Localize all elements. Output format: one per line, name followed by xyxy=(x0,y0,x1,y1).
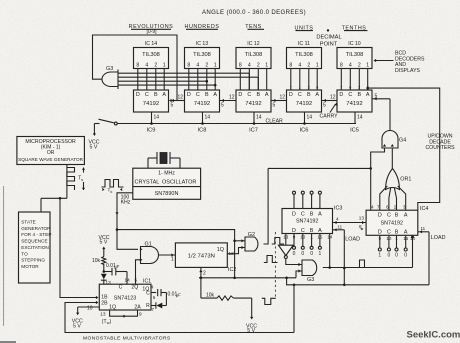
svg-text:12: 12 xyxy=(229,94,235,100)
wire lower distribution bus xyxy=(285,277,429,287)
switch input terminals IC3 xyxy=(293,191,322,208)
carry wire between counters 3 xyxy=(271,94,287,108)
svg-text:TIL308: TIL308 xyxy=(193,52,211,58)
svg-text:C: C xyxy=(348,92,352,98)
svg-text:74192: 74192 xyxy=(296,101,312,107)
svg-text:B: B xyxy=(357,92,361,98)
wire 1Q to G2 bottom input xyxy=(227,246,245,254)
svg-text:74192: 74192 xyxy=(245,101,261,107)
svg-text:ANGLE (000.0 - 360.0 DEGREES): ANGLE (000.0 - 360.0 DEGREES) xyxy=(202,9,306,16)
svg-text:1: 1 xyxy=(265,63,268,69)
svg-text:B: B xyxy=(154,92,158,98)
svg-text:μF: μF xyxy=(176,292,181,297)
svg-text:5: 5 xyxy=(135,278,138,283)
pin numbers IC6 counter inputs xyxy=(290,85,319,90)
svg-text:8: 8 xyxy=(289,63,292,69)
svg-text:1- MHz: 1- MHz xyxy=(158,171,175,177)
svg-text:IC3: IC3 xyxy=(334,206,342,212)
svg-text:A: A xyxy=(366,92,370,98)
svg-text:C: C xyxy=(146,291,150,297)
svg-text:G4: G4 xyxy=(399,138,406,144)
svg-text:B: B xyxy=(395,230,399,236)
svg-text:IC6: IC6 xyxy=(300,128,309,134)
wire OR1 output to G4 input xyxy=(391,148,393,169)
svg-text:B: B xyxy=(256,92,260,98)
svg-text:74192: 74192 xyxy=(346,101,362,107)
svg-text:G3: G3 xyxy=(307,277,314,283)
carry wire between counters 2 xyxy=(220,94,237,108)
display UIC10 TIL308 (TENTHS) xyxy=(337,41,372,69)
negative pulse symbol xyxy=(262,298,276,304)
svg-text:5: 5 xyxy=(171,103,174,109)
svg-text:8: 8 xyxy=(239,63,242,69)
svg-text:C: C xyxy=(298,92,302,98)
svg-text:IC5: IC5 xyxy=(350,128,359,134)
wire left rail to 74123 1B xyxy=(60,198,99,299)
VCC 5V at pin 10 xyxy=(72,306,100,330)
svg-text:14: 14 xyxy=(125,278,131,283)
svg-text:D: D xyxy=(292,228,296,234)
svg-text:s: s xyxy=(81,178,83,182)
heading labels for digit columns xyxy=(129,24,368,35)
carry wire between counters 4 xyxy=(322,94,338,108)
svg-text:OR: OR xyxy=(47,150,55,156)
capacitor 0.01uF right xyxy=(151,289,181,300)
svg-text:4: 4 xyxy=(298,63,301,69)
svg-text:KHz: KHz xyxy=(121,200,131,206)
svg-text:A: A xyxy=(265,92,269,98)
diode CR2 xyxy=(151,302,166,312)
svg-text:8: 8 xyxy=(136,63,139,69)
svg-text:A: A xyxy=(404,230,408,236)
BCD bus line D xyxy=(118,72,249,74)
wires TIL308 pins to counter (TENTHS) xyxy=(341,69,367,91)
wire pin 14 stub xyxy=(125,272,131,285)
svg-text:14: 14 xyxy=(256,115,262,121)
display UIC14 TIL308 (REVOLUTIONS) xyxy=(134,41,169,69)
wire load bus horizontal xyxy=(268,167,372,170)
svg-text:A: A xyxy=(315,92,319,98)
wire IC3 pin 14 down xyxy=(329,234,331,268)
svg-text:STEPPING: STEPPING xyxy=(21,258,45,263)
wire load line left with label xyxy=(343,230,360,286)
label CARRY with arrow xyxy=(320,103,339,120)
label IC6 xyxy=(300,128,309,134)
svg-text:STATE: STATE xyxy=(21,220,35,225)
svg-text:4: 4 xyxy=(196,63,199,69)
note BCD DECODERS AND DISPLAYS with arrow xyxy=(374,51,425,74)
pulse symbol on load wire xyxy=(357,260,370,268)
svg-text:4: 4 xyxy=(349,63,352,69)
svg-text:1Q: 1Q xyxy=(217,247,224,253)
pin-14 clear stub IC7 xyxy=(254,112,262,124)
svg-text:SN74123: SN74123 xyxy=(114,296,136,302)
svg-text:CRYSTAL: CRYSTAL xyxy=(135,180,160,186)
svg-text:1Q: 1Q xyxy=(109,305,116,311)
svg-text:DISPLAYS: DISPLAYS xyxy=(395,68,421,74)
svg-text:11: 11 xyxy=(338,225,343,230)
svg-text:2: 2 xyxy=(203,271,206,277)
svg-text:IC 10: IC 10 xyxy=(348,41,361,47)
svg-text:8: 8 xyxy=(187,63,190,69)
wire tenths A feedback down right side xyxy=(366,87,439,210)
svg-text:C: C xyxy=(247,92,251,98)
counter IC7 74192 (TENS) xyxy=(236,90,271,112)
svg-text:2: 2 xyxy=(307,63,310,69)
svg-text:14: 14 xyxy=(307,115,313,121)
svg-text:D: D xyxy=(289,92,293,98)
svg-text:IC7: IC7 xyxy=(249,128,258,134)
wire into G2 top input xyxy=(233,239,245,242)
BCD bus line C xyxy=(118,76,258,78)
svg-text:A: A xyxy=(162,92,166,98)
wires TIL308 pins to counter (TENS) xyxy=(240,69,266,91)
svg-text:MOTOR: MOTOR xyxy=(21,264,39,269)
display UIC12 TIL308 (TENS) xyxy=(236,41,271,69)
svg-text:1: 1 xyxy=(316,63,319,69)
svg-text:SN74192: SN74192 xyxy=(381,220,403,226)
svg-text:OR1: OR1 xyxy=(400,176,411,182)
pin-14 clear stub IC8 xyxy=(203,112,211,124)
capacitor 0.01uF left xyxy=(103,263,128,276)
svg-text:7: 7 xyxy=(152,307,155,312)
counter IC6 74192 (UNITS) xyxy=(287,90,322,112)
svg-text:12: 12 xyxy=(280,94,286,100)
preset value terminals IC4 (1 0 0 0) xyxy=(378,235,407,258)
svg-text:POINT: POINT xyxy=(320,41,338,47)
BCD bus line A xyxy=(118,84,217,87)
svg-text:12: 12 xyxy=(178,94,184,100)
svg-text:CLEAR: CLEAR xyxy=(266,118,284,124)
svg-text:2: 2 xyxy=(154,63,157,69)
wire 100 kHz clock from oscillator xyxy=(115,193,138,250)
svg-text:5 V: 5 V xyxy=(247,328,255,334)
svg-text:D: D xyxy=(339,92,343,98)
wire IC3-IC4 borrow (4 to 13) xyxy=(333,216,367,225)
counter IC5 74192 (TENTHS) xyxy=(337,90,372,112)
crystal Y1 symbol xyxy=(148,152,180,168)
svg-text:k: k xyxy=(111,190,113,194)
svg-text:14: 14 xyxy=(357,115,363,121)
AND gate G1 xyxy=(140,242,159,264)
svg-text:SN7890N: SN7890N xyxy=(155,191,179,197)
svg-text:IC4: IC4 xyxy=(420,206,428,212)
svg-text:CARRY: CARRY xyxy=(320,114,339,120)
counter IC3 SN74192 xyxy=(282,206,342,235)
note UP/DOWN DECADE COUNTERS xyxy=(425,134,455,152)
svg-text:A: A xyxy=(404,213,408,219)
svg-text:B: B xyxy=(205,92,209,98)
svg-text:0: 0 xyxy=(301,251,304,257)
svg-text:2: 2 xyxy=(358,63,361,69)
label IC8 xyxy=(198,128,207,134)
clear switch xyxy=(94,119,117,125)
counter IC4 SN74192 xyxy=(366,206,428,236)
svg-text:4: 4 xyxy=(248,63,251,69)
wire left input of G4 xyxy=(371,148,385,168)
svg-text:0: 0 xyxy=(293,251,296,257)
wire select line to G3 bottom input xyxy=(199,269,302,279)
svg-text:10: 10 xyxy=(87,306,93,312)
svg-text:B: B xyxy=(395,213,399,219)
pin numbers IC4 top xyxy=(371,204,406,209)
BCD bus line B xyxy=(118,80,208,83)
svg-text:D: D xyxy=(187,92,191,98)
wire inverter to G3 top input xyxy=(286,259,302,267)
svg-text:G3: G3 xyxy=(106,66,113,72)
svg-text:1/2 7473N: 1/2 7473N xyxy=(188,254,215,260)
svg-text:C: C xyxy=(301,211,305,217)
pin-14 clear stub IC5 xyxy=(355,112,363,124)
wire 100kHz branch to G2 select xyxy=(117,230,235,278)
wire bottom loop to 74123 2B xyxy=(65,301,294,333)
svg-text:TIL308: TIL308 xyxy=(245,52,263,58)
wire 7473 pin 2 input xyxy=(199,267,206,277)
svg-text:D: D xyxy=(292,211,296,217)
svg-text:LOAD: LOAD xyxy=(345,236,360,242)
counter IC8 74192 (HUNDREDS) xyxy=(185,90,220,112)
wire G3 output loop to IC9 pin 5 xyxy=(93,35,178,109)
crystal oscillator box SN7890N xyxy=(133,168,201,199)
AND gate G3 (9-detect, mirrored) xyxy=(102,66,118,89)
wire 1Q-2A feedback loop Tw xyxy=(100,310,142,325)
svg-text:4: 4 xyxy=(145,63,148,69)
svg-text:13: 13 xyxy=(359,216,365,221)
flip-flop IC2 1/2 7473N xyxy=(175,243,236,273)
AND gate G4 xyxy=(382,131,406,149)
VCC 5V at pulldown xyxy=(246,298,257,334)
label IC5 xyxy=(350,128,359,134)
wire microprocessor output down xyxy=(41,165,67,200)
svg-text:9: 9 xyxy=(139,312,142,317)
svg-text:SN74192: SN74192 xyxy=(296,219,318,225)
svg-text:1: 1 xyxy=(171,257,174,263)
svg-text:D: D xyxy=(378,213,382,219)
svg-text:B: B xyxy=(310,228,314,234)
svg-text:A: A xyxy=(213,92,217,98)
svg-text:C: C xyxy=(145,92,149,98)
pin numbers IC3 bottom xyxy=(283,235,332,240)
svg-text:1: 1 xyxy=(214,63,217,69)
dashed timing reference line xyxy=(274,232,276,298)
svg-text:C: C xyxy=(387,213,391,219)
svg-text:10k: 10k xyxy=(92,258,101,264)
svg-text:5: 5 xyxy=(375,94,378,100)
svg-text:B: B xyxy=(307,92,311,98)
AND gate G2 xyxy=(245,232,258,251)
resistor 10k pulldown xyxy=(201,278,252,301)
svg-text:C: C xyxy=(119,285,123,291)
svg-text:4: 4 xyxy=(151,285,154,290)
svg-text:1: 1 xyxy=(319,251,322,257)
diode CR1 xyxy=(101,274,111,285)
svg-text:1: 1 xyxy=(366,63,369,69)
svg-text:IC9: IC9 xyxy=(147,128,156,134)
svg-text:0: 0 xyxy=(310,251,313,257)
svg-text:DECIMAL: DECIMAL xyxy=(316,35,341,41)
svg-text:SQUARE WAVE GENERATOR: SQUARE WAVE GENERATOR xyxy=(18,157,84,162)
svg-text:MONOSTABLE MULTIVIBRATORS: MONOSTABLE MULTIVIBRATORS xyxy=(83,336,171,342)
label IC7 xyxy=(249,128,258,134)
OR gate OR1 xyxy=(386,169,412,190)
VCC 5V above 74123 xyxy=(99,235,110,257)
svg-text:C: C xyxy=(301,228,305,234)
svg-text:0: 0 xyxy=(395,253,398,259)
wire 2Q to G1 input xyxy=(136,260,141,284)
display UIC11 TIL308 (UNITS) xyxy=(287,41,322,69)
svg-text:2Q: 2Q xyxy=(131,285,138,291)
svg-text:TIL308: TIL308 xyxy=(142,52,160,58)
svg-text:6: 6 xyxy=(153,295,156,300)
waveform Ts square wave symbol xyxy=(67,168,85,191)
svg-text:IC 13: IC 13 xyxy=(196,41,209,47)
wire IC4 pin 11 load right xyxy=(418,226,446,285)
pulse symbol at inverter input xyxy=(272,238,284,245)
svg-text:14: 14 xyxy=(205,115,211,121)
svg-text:[0-9]: [0-9] xyxy=(146,29,157,35)
svg-text:13: 13 xyxy=(100,312,106,317)
wire to state generator xyxy=(40,198,42,212)
svg-text:0: 0 xyxy=(388,253,391,259)
svg-text:4: 4 xyxy=(336,217,339,222)
svg-text:5 V: 5 V xyxy=(100,240,108,246)
wire bottom loop up xyxy=(293,285,295,333)
svg-text:14: 14 xyxy=(154,115,160,121)
label DECIMAL POINT xyxy=(316,35,341,48)
pin-14 clear stub IC6 xyxy=(305,112,313,124)
svg-text:IC 11: IC 11 xyxy=(298,41,310,47)
svg-text:8: 8 xyxy=(340,63,343,69)
svg-text:IC8: IC8 xyxy=(198,128,207,134)
svg-text:IC 14: IC 14 xyxy=(145,41,158,47)
svg-text:5 V: 5 V xyxy=(73,323,81,329)
svg-text:B: B xyxy=(310,211,314,217)
svg-text:R: R xyxy=(146,303,150,309)
wire IC3-IC4 carry (11 to 8) xyxy=(333,224,364,231)
svg-text:TIL308: TIL308 xyxy=(346,52,364,58)
wires TIL308 pins to counter (HUNDREDS) xyxy=(189,69,215,91)
svg-text:5: 5 xyxy=(221,103,224,109)
svg-text:0: 0 xyxy=(404,253,407,259)
svg-text:LOAD: LOAD xyxy=(431,235,446,241)
svg-text:12: 12 xyxy=(330,94,336,100)
wires TIL308 pins to counter (REVOLUTIONS) xyxy=(138,69,164,91)
svg-text:COUNTERS: COUNTERS xyxy=(425,145,455,151)
wire IC3 pin 13 to inverter xyxy=(285,234,287,246)
svg-text:5 V: 5 V xyxy=(90,145,98,151)
svg-text:OSCILLATOR: OSCILLATOR xyxy=(162,180,196,186)
svg-text:5: 5 xyxy=(323,103,326,109)
pin numbers IC4 bottom xyxy=(379,236,416,241)
svg-text:TIL308: TIL308 xyxy=(295,52,313,58)
svg-text:2: 2 xyxy=(257,63,260,69)
decimal point dot xyxy=(327,29,329,31)
svg-text:2A: 2A xyxy=(134,305,141,311)
svg-text:11: 11 xyxy=(421,226,426,231)
svg-text:FOR 4 - STEP: FOR 4 - STEP xyxy=(21,232,51,237)
svg-text:A: A xyxy=(318,228,322,234)
microprocessor / square-wave generator box xyxy=(17,137,85,165)
svg-text:SEQUENCE: SEQUENCE xyxy=(21,239,47,244)
wire RC junction xyxy=(165,293,167,306)
svg-text:74192: 74192 xyxy=(194,101,210,107)
svg-text:EXCITATION: EXCITATION xyxy=(21,245,48,250)
svg-text:IC 12: IC 12 xyxy=(247,41,260,47)
pin-14 clear stub IC9 xyxy=(152,112,160,124)
pulse symbol at inverter output xyxy=(264,256,278,263)
svg-text:D: D xyxy=(238,92,242,98)
svg-text:TO: TO xyxy=(21,251,28,256)
svg-text:1: 1 xyxy=(163,63,166,69)
label IC9 xyxy=(147,128,156,134)
resistor 10k vertical xyxy=(92,257,106,272)
wire count-down input to IC4 pin 4 xyxy=(370,168,372,210)
svg-text:SeekIC.com: SeekIC.com xyxy=(407,329,460,340)
AND gate G3 (load pulse) xyxy=(302,260,317,283)
wire G3 output to IC4 pin 14 xyxy=(323,236,414,269)
waveform Tk square wave symbol xyxy=(102,180,124,195)
carry wire between counters 1 xyxy=(170,94,185,102)
wires OR1 inputs fan to IC4 xyxy=(380,186,406,210)
wires TIL308 pins to counter (UNITS) xyxy=(291,69,317,91)
inverter A1 xyxy=(279,245,294,258)
counter IC9 74192 (REVOLUTIONS) xyxy=(134,90,169,112)
preset value terminals IC3 (0 0 0 1) xyxy=(293,234,322,258)
monostable IC1 SN74123 xyxy=(99,279,154,311)
page left border xyxy=(3,186,5,326)
scan edge mark bottom left xyxy=(0,341,16,343)
svg-text:2B: 2B xyxy=(101,301,108,307)
svg-text:μF: μF xyxy=(114,264,119,269)
svg-text:74192: 74192 xyxy=(143,101,159,107)
svg-text:GENERATOR: GENERATOR xyxy=(21,226,51,231)
state generator box xyxy=(19,212,52,283)
pin numbers IC5 counter inputs xyxy=(340,85,369,90)
svg-text:1: 1 xyxy=(378,253,381,259)
svg-text:5: 5 xyxy=(273,103,276,109)
svg-text:D: D xyxy=(136,92,140,98)
svg-text:C: C xyxy=(387,230,391,236)
wire G1 output to 7473 pin 1 xyxy=(159,253,176,262)
wire G2 output up to load bus xyxy=(264,168,269,244)
wire IC5 pin5 to gate G4 output xyxy=(372,94,390,131)
display UIC13 TIL308 (HUNDREDS) xyxy=(185,41,220,69)
svg-text:D: D xyxy=(378,230,382,236)
svg-text:A: A xyxy=(318,211,322,217)
CLEAR line wire xyxy=(117,118,356,124)
svg-text:C: C xyxy=(196,92,200,98)
svg-text:2: 2 xyxy=(205,63,208,69)
VCC 5V source at switch xyxy=(89,124,100,151)
